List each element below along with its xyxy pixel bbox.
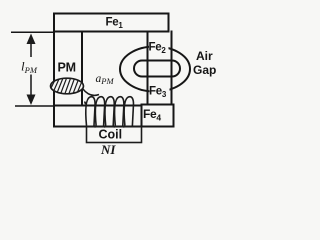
coil winding [85,97,134,127]
core top bar Fe1 [54,14,169,32]
a_PM pointer arc [83,89,100,96]
dimension arrowhead up [27,34,36,45]
core left edge wire [53,32,55,127]
svg-text:Coil: Coil [99,128,123,142]
permanent magnet hatched ellipse [47,77,87,99]
dimension top tick [11,31,54,33]
core bottom bar Fe4 top wire [54,105,142,107]
air gap inner fringing stadium [134,61,180,77]
dimension vertical wire lower [30,75,32,104]
Fe4 corner box [142,105,174,127]
right column right wire [171,32,173,105]
label halo Fe3 [150,86,170,99]
dimension l_PM [11,32,54,106]
svg-text:Gap: Gap [193,63,216,77]
dimension arrowhead down [27,95,36,106]
svg-text:PM: PM [58,61,76,75]
air gap outer fringing ellipse [120,47,190,92]
dimension vertical wire upper [30,36,32,57]
core bottom bar bottom wire [54,126,174,128]
Coil label box [87,127,142,143]
svg-text:NI: NI [100,142,116,157]
label halo Fe2 [149,41,169,53]
PM column right wire [81,32,83,106]
right column left wire [147,32,149,105]
svg-text:Air: Air [196,49,213,63]
dimension bottom tick [15,105,54,107]
